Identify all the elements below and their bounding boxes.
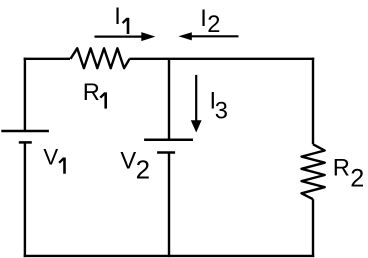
svg-text:R: R [83,80,100,106]
wire: middle branch from node B down to V2 positive plate [168,59,170,140]
wire: bottom rail [24,255,315,257]
wire: R2 to bottom-right corner [312,199,314,257]
svg-text:3: 3 [215,99,228,125]
label I2 [200,6,220,38]
wire: top-left segment (corner to R1) [24,58,70,60]
svg-text:2: 2 [136,155,150,185]
label R1 [83,80,106,108]
svg-text:2: 2 [207,12,220,38]
wire: V2 negative plate down to bottom rail [168,153,170,258]
svg-text:V: V [43,144,58,169]
label V2 [120,149,150,185]
battery V2 positive plate [144,139,193,142]
current arrow I2 [179,32,239,40]
current arrow I1 [95,32,156,41]
battery V2 negative plate [157,151,175,154]
svg-text:2: 2 [350,165,364,193]
svg-text:I: I [200,6,207,32]
current arrow I3 [191,75,202,133]
battery V1 positive plate [1,130,49,133]
svg-text:V: V [120,149,136,175]
label I1 [114,4,128,34]
svg-text:R: R [333,156,350,182]
label I3 [210,89,228,125]
resistor R2 [302,144,325,199]
wire: R1 to node B (top middle junction) [129,58,169,60]
svg-text:I: I [114,4,121,30]
wire: node B to top-right corner [169,58,314,60]
label R2 [333,156,365,193]
resistor R1 [71,48,130,68]
battery V1 negative plate [19,141,32,144]
wire: right branch from top-right corner down to R2 [312,58,314,145]
wire: left branch from top-left corner down to V1 positive plate [24,58,26,131]
wire: V1 negative plate down to bottom-left corner [24,142,26,257]
label V1 [43,144,64,173]
